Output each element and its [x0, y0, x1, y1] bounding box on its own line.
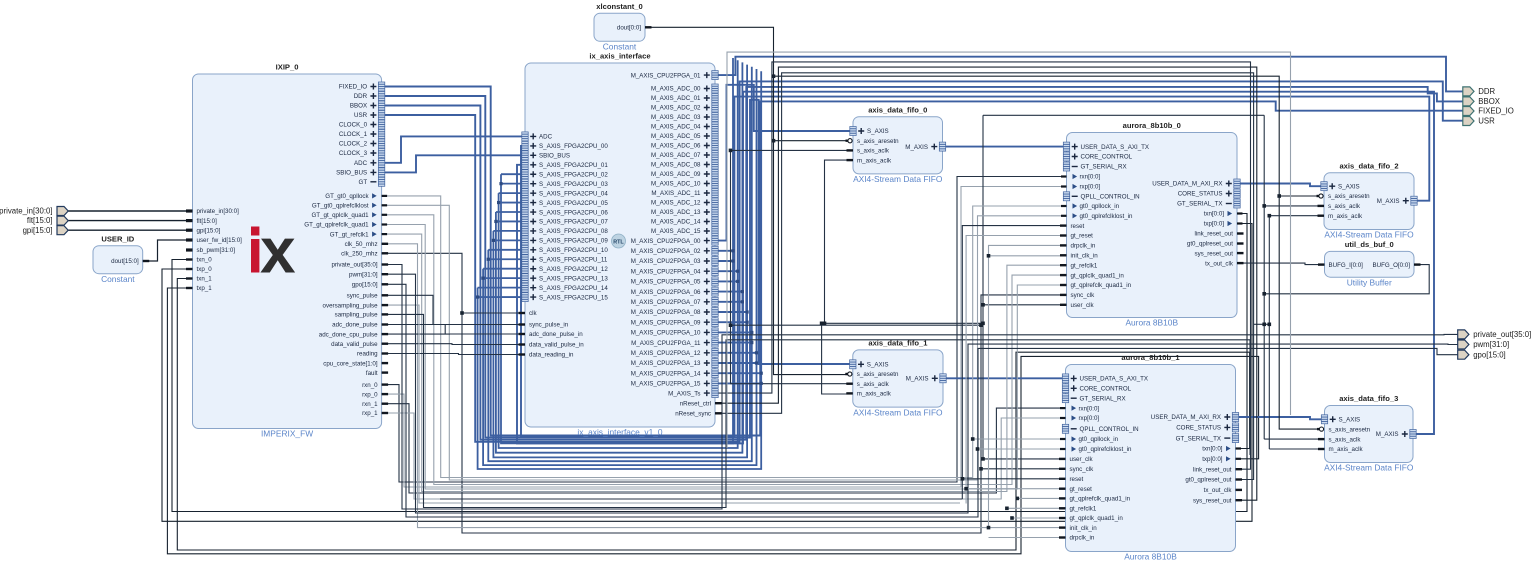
svg-text:AXI4-Stream Data FIFO: AXI4-Stream Data FIFO [853, 407, 943, 417]
wire loopback 2 stub [715, 250, 733, 252]
wire reading [382, 354, 525, 355]
wire flt [66, 220, 193, 222]
block aurora_8b10b_0 [1060, 121, 1244, 328]
wire userclk bufgi [1237, 263, 1325, 265]
svg-text:rxp_0: rxp_0 [362, 391, 378, 398]
wire reset a0 [962, 226, 1066, 499]
svg-text:M_AXIS_ADC_11: M_AXIS_ADC_11 [651, 190, 701, 197]
wire loopback 15 stub [715, 382, 761, 384]
svg-text:axis_data_fifo_3: axis_data_fifo_3 [1339, 394, 1398, 403]
wire const fifo0 [774, 140, 854, 142]
svg-text:gpi[15:0]: gpi[15:0] [23, 226, 53, 235]
svg-text:s_axis_aresetn: s_axis_aresetn [1329, 426, 1371, 433]
svg-text:M_AXIS_CPU2FPGA_05: M_AXIS_CPU2FPGA_05 [631, 279, 701, 286]
svg-text:axis_data_fifo_1: axis_data_fifo_1 [868, 339, 928, 348]
svg-text:gt_qplclk_quad1_in: gt_qplclk_quad1_in [1071, 272, 1125, 279]
svg-text:S_AXIS_FPGA2CPU_09: S_AXIS_FPGA2CPU_09 [539, 238, 608, 245]
svg-text:IMPERIX_FW: IMPERIX_FW [261, 429, 313, 439]
svg-text:tx_out_clk: tx_out_clk [1204, 487, 1233, 494]
wire loopback 10 left stub [488, 249, 525, 251]
external port BBOX [1463, 97, 1501, 106]
wire reset bottom [440, 498, 962, 500]
svg-text:gt0_qplreset_out: gt0_qplreset_out [1185, 477, 1231, 484]
wire loopback trunk 5 [483, 69, 756, 465]
wire gt_reset a0 [966, 236, 1066, 504]
svg-text:GT: GT [359, 179, 368, 186]
wire loopback 8 stub [715, 311, 747, 313]
svg-text:private_out[35:0]: private_out[35:0] [1473, 330, 1531, 339]
svg-text:gt_qplrefclk_quad1_in: gt_qplrefclk_quad1_in [1070, 496, 1131, 503]
wire loopback 4 left stub [499, 192, 525, 194]
wire loopback 15 left stub [478, 296, 525, 298]
wire private_in [66, 210, 193, 212]
wire txp_1 [167, 288, 1258, 554]
svg-text:gt_refclk1: gt_refclk1 [1070, 506, 1097, 513]
svg-text:link_reset_out: link_reset_out [1193, 466, 1232, 473]
wire busclk f2 [1269, 215, 1324, 217]
svg-text:M_AXIS: M_AXIS [906, 376, 929, 383]
svg-text:Constant: Constant [101, 274, 135, 284]
wire fifo_2 M_AXIS loop [521, 97, 1429, 438]
svg-text:BBOX: BBOX [1478, 97, 1500, 106]
svg-text:m_axis_aclk: m_axis_aclk [857, 391, 892, 398]
wire userclk f0 [825, 160, 854, 323]
wire loopback 9 stub [715, 321, 747, 323]
wire loopback 6 left stub [496, 211, 525, 213]
wire rxn_1 [382, 404, 1066, 493]
svg-text:m_axis_aclk: m_axis_aclk [1329, 446, 1364, 453]
wire fifo_0 M_AXIS [943, 146, 1067, 148]
svg-text:gt0_qpllock_in: gt0_qpllock_in [1080, 203, 1120, 210]
svg-text:gt_refclk1: gt_refclk1 [1071, 262, 1098, 269]
svg-text:sys_reset_out: sys_reset_out [1193, 497, 1232, 504]
svg-text:M_AXIS_ADC_12: M_AXIS_ADC_12 [651, 200, 701, 207]
wire rxn_0 [382, 177, 1067, 483]
wire loopback 14 left stub [478, 287, 525, 289]
svg-text:txp_1: txp_1 [197, 285, 213, 292]
svg-text:Utility Buffer: Utility Buffer [1347, 277, 1392, 287]
svg-text:private_in[30:0]: private_in[30:0] [0, 207, 53, 216]
svg-text:s_axis_aclk: s_axis_aclk [857, 148, 890, 155]
block ix_axis_interface [519, 52, 722, 438]
wire M_AXIS_Ts [715, 62, 1251, 469]
svg-text:M_AXIS_ADC_04: M_AXIS_ADC_04 [651, 124, 701, 131]
svg-text:M_AXIS_CPU2FPGA_11: M_AXIS_CPU2FPGA_11 [631, 340, 701, 347]
external port private_in[30:0] [0, 207, 68, 216]
svg-text:drpclk_in: drpclk_in [1071, 243, 1096, 250]
svg-text:private_out[35:0]: private_out[35:0] [331, 262, 377, 269]
svg-text:s_axis_aclk: s_axis_aclk [1328, 203, 1361, 210]
svg-text:M_AXIS_CPU2FPGA_06: M_AXIS_CPU2FPGA_06 [631, 289, 701, 296]
wire loopback trunk 3 [493, 65, 747, 458]
svg-text:ADC: ADC [354, 160, 368, 167]
wire loopback 4 stub [715, 270, 738, 272]
svg-text:S_AXIS_FPGA2CPU_15: S_AXIS_FPGA2CPU_15 [539, 294, 608, 301]
svg-text:private_in[30:0]: private_in[30:0] [197, 208, 240, 215]
wire busclk f3 [1269, 448, 1324, 450]
svg-text:s_axis_aresetn: s_axis_aresetn [857, 138, 899, 145]
wire qplrefclklost [382, 205, 1067, 480]
svg-text:user_clk: user_clk [1070, 456, 1094, 463]
wire busclk bus [731, 324, 982, 326]
svg-text:BUFG_I[0:0]: BUFG_I[0:0] [1329, 262, 1364, 269]
wire loopback trunk 4 [488, 67, 752, 461]
svg-text:flt[15:0]: flt[15:0] [27, 216, 53, 225]
svg-text:pwm[31:0]: pwm[31:0] [349, 271, 378, 278]
svg-text:tx_out_clk: tx_out_clk [1205, 260, 1234, 267]
svg-text:DDR: DDR [354, 93, 368, 100]
svg-text:USR: USR [354, 112, 368, 119]
svg-text:adc_done_cpu_pulse: adc_done_cpu_pulse [319, 331, 378, 338]
wire loopback trunk 6 [478, 71, 762, 469]
wire sampling [382, 314, 1250, 507]
wire busclk a1sync [981, 468, 1066, 470]
svg-text:GT_gt0_qplrefclklost: GT_gt0_qplrefclklost [312, 203, 369, 210]
svg-text:axis_data_fifo_2: axis_data_fifo_2 [1339, 162, 1398, 171]
svg-text:M_AXIS_CPU2FPGA_07: M_AXIS_CPU2FPGA_07 [631, 299, 701, 306]
svg-text:USER_DATA_M_AXI_RX: USER_DATA_M_AXI_RX [1151, 414, 1221, 421]
svg-text:S_AXIS: S_AXIS [1339, 417, 1361, 424]
wire pwm [382, 274, 1458, 513]
svg-text:gpo[15:0]: gpo[15:0] [352, 282, 378, 289]
wire adc_done [382, 325, 525, 335]
svg-text:ix_axis_interface_v1_0: ix_axis_interface_v1_0 [577, 427, 663, 437]
svg-text:M_AXIS_CPU2FPGA_00: M_AXIS_CPU2FPGA_00 [631, 238, 701, 245]
svg-text:txn_0: txn_0 [197, 257, 213, 264]
svg-text:gt0_qplrefclklost_in: gt0_qplrefclklost_in [1080, 213, 1134, 220]
svg-text:Aurora 8B10B: Aurora 8B10B [1125, 318, 1178, 328]
wire loopback trunk 2 [496, 62, 743, 452]
wire clk bridge [1254, 323, 1270, 325]
external port private_out[35:0] [1458, 330, 1532, 339]
wire loopback 2 left stub [501, 173, 525, 175]
svg-text:M_AXIS_CPU2FPGA_12: M_AXIS_CPU2FPGA_12 [631, 350, 701, 357]
wire loopback 7 stub [715, 301, 742, 303]
wire loopback 3 left stub [501, 183, 525, 185]
svg-text:QPLL_CONTROL_IN: QPLL_CONTROL_IN [1080, 426, 1139, 433]
wire loopback 14 stub [715, 372, 761, 374]
svg-text:rxp[0:0]: rxp[0:0] [1080, 184, 1101, 191]
wire userclk trunk [982, 115, 984, 459]
block xlconstant_0 [594, 2, 652, 52]
svg-text:pwm[31:0]: pwm[31:0] [1473, 340, 1509, 349]
wire loopback 11 left stub [488, 258, 525, 260]
svg-text:gpo[15:0]: gpo[15:0] [1473, 350, 1506, 359]
svg-text:rxn_1: rxn_1 [362, 401, 378, 408]
svg-text:link_reset_out: link_reset_out [1194, 231, 1233, 238]
wire xlconstant net [645, 27, 853, 374]
wire userclk a1 [983, 458, 1066, 460]
wire loopback 13 left stub [483, 277, 525, 279]
wire refclk1 a1 [1007, 507, 1066, 509]
svg-text:reading: reading [357, 351, 378, 358]
svg-text:util_ds_buf_0: util_ds_buf_0 [1345, 240, 1394, 249]
svg-text:m_axis_aclk: m_axis_aclk [857, 157, 892, 164]
svg-text:Aurora 8B10B: Aurora 8B10B [1124, 552, 1177, 562]
svg-text:clk_50_mhz: clk_50_mhz [345, 241, 378, 248]
svg-text:aurora_8b10b_0: aurora_8b10b_0 [1123, 121, 1181, 130]
svg-text:user_clk: user_clk [1071, 302, 1095, 309]
wire loopback 10 stub [715, 331, 752, 333]
svg-text:GT_SERIAL_TX: GT_SERIAL_TX [1177, 201, 1222, 208]
wire loopback trunk 0 [501, 58, 733, 443]
svg-text:sys_reset_out: sys_reset_out [1194, 250, 1233, 257]
block axis_data_fifo_0 [846, 105, 946, 184]
svg-text:CLOCK_0: CLOCK_0 [339, 122, 368, 129]
svg-text:USER_DATA_S_AXI_TX: USER_DATA_S_AXI_TX [1080, 376, 1149, 383]
svg-text:AXI4-Stream Data FIFO: AXI4-Stream Data FIFO [1324, 463, 1414, 473]
svg-text:rxp[0:0]: rxp[0:0] [1079, 415, 1100, 422]
wire clk50 a1init [989, 527, 1066, 529]
svg-text:s_axis_aclk: s_axis_aclk [1329, 436, 1362, 443]
svg-text:SBIO_BUS: SBIO_BUS [539, 153, 570, 160]
svg-text:nReset_ctrl: nReset_ctrl [680, 400, 711, 407]
svg-text:M_AXIS_CPU2FPGA_04: M_AXIS_CPU2FPGA_04 [631, 268, 701, 275]
wire gt_reset a1 [966, 488, 1065, 490]
svg-text:M_AXIS_ADC_13: M_AXIS_ADC_13 [651, 209, 701, 216]
svg-text:M_AXIS_ADC_10: M_AXIS_ADC_10 [651, 181, 701, 188]
wire userclk top [983, 114, 1264, 116]
svg-text:M_AXIS_Ts: M_AXIS_Ts [668, 390, 700, 397]
svg-text:M_AXIS_ADC_08: M_AXIS_ADC_08 [651, 162, 701, 169]
svg-text:M_AXIS: M_AXIS [1376, 431, 1399, 438]
svg-text:S_AXIS_FPGA2CPU_00: S_AXIS_FPGA2CPU_00 [539, 143, 608, 150]
external port DDR [1463, 87, 1496, 96]
wire refclk1 [382, 234, 1067, 491]
wire const branch top [774, 76, 1325, 429]
wire data_valid [382, 343, 525, 346]
svg-text:sb_pwm[31:0]: sb_pwm[31:0] [197, 247, 236, 254]
svg-text:M_AXIS: M_AXIS [1377, 198, 1400, 205]
wire aurora0 M_AXI_RX to fifo_2 [1237, 184, 1324, 187]
block IXIP_0 [186, 63, 388, 439]
svg-text:gt0_qpllock_in: gt0_qpllock_in [1079, 436, 1119, 443]
external port pwm[31:0] [1458, 340, 1509, 349]
svg-text:data_reading_in: data_reading_in [529, 352, 574, 359]
svg-text:reset: reset [1071, 223, 1085, 230]
wire gray box [727, 52, 1291, 448]
wire qpllock a1 [973, 438, 1066, 440]
svg-text:S_AXIS_FPGA2CPU_06: S_AXIS_FPGA2CPU_06 [539, 209, 608, 216]
svg-text:S_AXIS_FPGA2CPU_11: S_AXIS_FPGA2CPU_11 [539, 257, 608, 264]
block axis_data_fifo_3 [1317, 394, 1416, 473]
block util_ds_buf_0 [1318, 240, 1421, 287]
svg-text:rxn_0: rxn_0 [362, 382, 378, 389]
svg-text:txp[0:0]: txp[0:0] [1202, 456, 1223, 463]
svg-text:rxp_1: rxp_1 [362, 410, 378, 417]
svg-text:GT_gt_refclk1: GT_gt_refclk1 [330, 231, 369, 238]
wire loopback 12 stub [715, 352, 757, 354]
svg-text:M_AXIS_ADC_09: M_AXIS_ADC_09 [651, 171, 701, 178]
svg-text:txp_0: txp_0 [197, 266, 213, 273]
svg-text:S_AXIS_FPGA2CPU_02: S_AXIS_FPGA2CPU_02 [539, 171, 608, 178]
svg-text:M_AXIS_ADC_15: M_AXIS_ADC_15 [651, 228, 701, 235]
svg-text:M_AXIS: M_AXIS [905, 144, 928, 151]
svg-text:axis_data_fifo_0: axis_data_fifo_0 [868, 105, 927, 114]
wire gpi [66, 229, 193, 231]
svg-text:M_AXIS_CPU2FPGA_03: M_AXIS_CPU2FPGA_03 [631, 258, 701, 265]
svg-text:GT_gt_qplrefclk_quad1: GT_gt_qplrefclk_quad1 [304, 222, 369, 229]
svg-text:S_AXIS_FPGA2CPU_04: S_AXIS_FPGA2CPU_04 [539, 190, 608, 197]
svg-text:clk_250_mhz: clk_250_mhz [341, 251, 377, 258]
block aurora_8b10b_1 [1059, 353, 1242, 562]
svg-text:CORE_STATUS: CORE_STATUS [1178, 191, 1223, 198]
external port gpi[15:0] [23, 226, 69, 235]
svg-text:M_AXIS_CPU2FPGA_13: M_AXIS_CPU2FPGA_13 [631, 360, 701, 367]
wire clk250 ixclk [462, 312, 525, 314]
wire busclk f0 [731, 149, 854, 151]
svg-text:cpu_core_state[1:0]: cpu_core_state[1:0] [323, 360, 378, 367]
svg-text:AXI4-Stream Data FIFO: AXI4-Stream Data FIFO [853, 174, 943, 184]
svg-text:CLOCK_3: CLOCK_3 [339, 150, 368, 157]
wire qplrefclk_quad1 [382, 225, 1067, 490]
svg-text:M_AXIS_CPU2FPGA_15: M_AXIS_CPU2FPGA_15 [631, 381, 701, 388]
svg-text:gt0_qplrefclklost_in: gt0_qplrefclklost_in [1079, 446, 1133, 453]
wire adc_done_cpu [382, 333, 450, 335]
svg-text:GT_SERIAL_TX: GT_SERIAL_TX [1176, 435, 1221, 442]
svg-text:CORE_CONTROL: CORE_CONTROL [1081, 154, 1133, 161]
svg-text:M_AXIS_CPU2FPGA_10: M_AXIS_CPU2FPGA_10 [631, 330, 701, 337]
external port USR [1463, 117, 1495, 126]
svg-text:sync_pulse: sync_pulse [347, 293, 379, 300]
svg-text:S_AXIS_FPGA2CPU_13: S_AXIS_FPGA2CPU_13 [539, 275, 608, 282]
svg-text:sync_clk: sync_clk [1070, 466, 1095, 473]
svg-text:adc_done_pulse_in: adc_done_pulse_in [529, 331, 583, 338]
svg-text:GT_gt0_qpllock: GT_gt0_qpllock [325, 193, 369, 200]
svg-text:M_AXIS_ADC_07: M_AXIS_ADC_07 [651, 152, 701, 159]
wire fifo_1 M_AXIS [943, 377, 1066, 379]
svg-text:M_AXIS_ADC_14: M_AXIS_ADC_14 [651, 219, 701, 226]
svg-text:txn[0:0]: txn[0:0] [1204, 211, 1225, 218]
block USER_ID [93, 234, 149, 284]
svg-text:FIXED_IO: FIXED_IO [1478, 107, 1514, 116]
svg-text:GT_SERIAL_RX: GT_SERIAL_RX [1080, 395, 1126, 402]
svg-text:data_valid_pulse_in: data_valid_pulse_in [529, 342, 584, 349]
wire FIXED_IO [385, 87, 1463, 436]
svg-text:sync_clk: sync_clk [1071, 292, 1096, 299]
wire userclk a0 [983, 304, 1067, 306]
svg-text:ADC: ADC [539, 134, 553, 141]
svg-text:FIXED_IO: FIXED_IO [339, 84, 367, 91]
svg-text:init_clk_in: init_clk_in [1070, 525, 1098, 532]
svg-text:M_AXIS_CPU2FPGA_02: M_AXIS_CPU2FPGA_02 [631, 248, 701, 255]
wire SBIO_BUS [385, 155, 525, 172]
svg-text:USER_DATA_S_AXI_TX: USER_DATA_S_AXI_TX [1081, 144, 1150, 151]
svg-text:S_AXIS: S_AXIS [867, 362, 889, 369]
svg-text:CORE_CONTROL: CORE_CONTROL [1080, 386, 1132, 393]
svg-text:user_fw_id[15:0]: user_fw_id[15:0] [197, 237, 243, 244]
svg-text:USR: USR [1478, 117, 1495, 126]
wire gpo [382, 284, 1458, 517]
block axis_data_fifo_2 [1317, 162, 1418, 240]
wire loopback 12 left stub [483, 268, 525, 270]
wire busclk v730 [731, 150, 853, 383]
svg-text:SBIO_BUS: SBIO_BUS [336, 170, 367, 177]
svg-text:init_clk_in: init_clk_in [1071, 253, 1099, 260]
wire qplclk a1 [1012, 517, 1066, 519]
svg-text:CORE_STATUS: CORE_STATUS [1176, 425, 1221, 432]
svg-text:CLOCK_1: CLOCK_1 [339, 131, 368, 138]
wire USR [385, 81, 1463, 441]
wire qplrefclk a1 [1017, 497, 1065, 499]
svg-text:dout[15:0]: dout[15:0] [111, 258, 139, 265]
external port FIXED_IO [1463, 107, 1514, 116]
wire userclk f3 [1264, 438, 1324, 440]
svg-text:gpi[15:0]: gpi[15:0] [197, 227, 221, 234]
svg-text:oversampling_pulse: oversampling_pulse [323, 302, 379, 309]
wire rxp_1 [382, 413, 1066, 499]
svg-text:M_AXIS_CPU2FPGA_08: M_AXIS_CPU2FPGA_08 [631, 309, 701, 316]
wire qplrefclklost a1 [978, 448, 1066, 450]
wire loopback 9 left stub [493, 239, 525, 241]
wire userclk f2 [1264, 205, 1324, 207]
wire const fifo2 [1279, 195, 1324, 197]
svg-text:m_axis_aclk: m_axis_aclk [1328, 213, 1363, 220]
svg-text:txn[0:0]: txn[0:0] [1202, 446, 1223, 453]
wire cpu2fpga_00 to fifo_0 [715, 85, 853, 241]
svg-text:S_AXIS: S_AXIS [867, 128, 889, 135]
svg-text:M_AXIS_CPU2FPGA_09: M_AXIS_CPU2FPGA_09 [631, 319, 701, 326]
svg-text:RTL: RTL [613, 239, 624, 245]
svg-text:txp[0:0]: txp[0:0] [1204, 221, 1225, 228]
wire txp_0 [162, 224, 1252, 522]
wire loopback 7 left stub [496, 220, 525, 222]
svg-text:gt_qplrefclk_quad1_in: gt_qplrefclk_quad1_in [1071, 282, 1132, 289]
external port gpo[15:0] [1458, 350, 1506, 359]
wire DDR to fifo_1 [385, 96, 853, 438]
svg-text:M_AXIS_CPU2FPGA_14: M_AXIS_CPU2FPGA_14 [631, 370, 701, 377]
svg-text:nReset_sync: nReset_sync [675, 411, 711, 418]
svg-text:S_AXIS: S_AXIS [1338, 183, 1360, 190]
wire loopback 11 stub [715, 342, 752, 344]
svg-text:USER_DATA_M_AXI_RX: USER_DATA_M_AXI_RX [1152, 181, 1222, 188]
wire reset a1 [962, 478, 1065, 480]
svg-text:CLOCK_2: CLOCK_2 [339, 141, 368, 148]
svg-text:dout[0:0]: dout[0:0] [617, 25, 641, 32]
svg-text:USER_ID: USER_ID [101, 234, 134, 243]
wire rxp_0 [382, 187, 1067, 488]
svg-text:txn_1: txn_1 [197, 276, 213, 283]
wire nReset_ctrl [715, 67, 1257, 500]
wire aurora1 M_AXI_RX to fifo_3 [1236, 417, 1325, 419]
wire sync_pulse [382, 295, 525, 324]
wire clk50 a0init [989, 255, 1067, 257]
wire oversampling [382, 305, 960, 503]
svg-text:drpclk_in: drpclk_in [1070, 535, 1095, 542]
svg-text:Constant: Constant [603, 42, 637, 52]
svg-text:rxn[0:0]: rxn[0:0] [1079, 405, 1100, 412]
svg-text:s_axis_aresetn: s_axis_aresetn [857, 371, 899, 378]
wire loopback 5 left stub [499, 202, 525, 204]
wire txn_0 [172, 214, 1247, 512]
svg-text:M_AXIS_ADC_03: M_AXIS_ADC_03 [651, 114, 701, 121]
svg-text:S_AXIS_FPGA2CPU_08: S_AXIS_FPGA2CPU_08 [539, 228, 608, 235]
wire userclk return [1264, 265, 1429, 294]
wire loopback trunk 1 [499, 60, 738, 448]
svg-text:adc_done_pulse: adc_done_pulse [332, 322, 378, 329]
svg-text:ix_axis_interface: ix_axis_interface [589, 52, 650, 61]
svg-text:fault: fault [366, 370, 378, 377]
svg-text:gt_reset: gt_reset [1070, 486, 1093, 493]
svg-text:BBOX: BBOX [350, 103, 367, 110]
wire clk50 [382, 244, 1067, 528]
svg-text:xlconstant_0: xlconstant_0 [596, 2, 642, 11]
svg-text:M_AXIS_ADC_00: M_AXIS_ADC_00 [651, 86, 701, 93]
svg-text:S_AXIS_FPGA2CPU_01: S_AXIS_FPGA2CPU_01 [539, 162, 608, 169]
wire userclk f1 [822, 323, 853, 394]
wire userclk bus [822, 322, 983, 324]
wire busclk v1269 [1268, 216, 1270, 449]
